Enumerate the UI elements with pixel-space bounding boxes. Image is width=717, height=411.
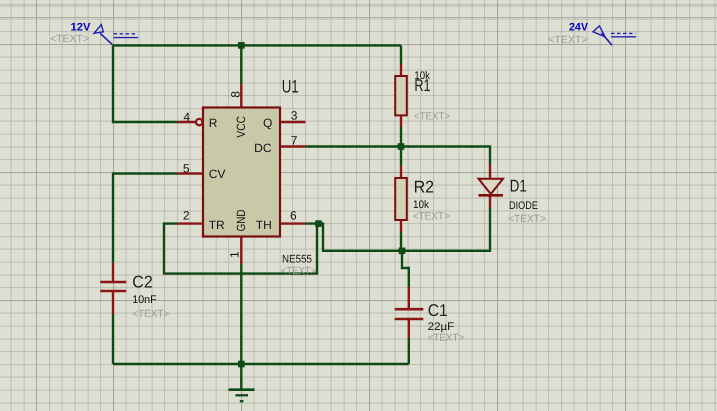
svg-text:Q: Q — [263, 116, 272, 130]
svg-text:10nF: 10nF — [132, 294, 157, 306]
pin 4 stub — [178, 121, 196, 123]
pin 8 stub — [240, 84, 242, 108]
resistor R1 — [395, 64, 407, 127]
wire C1 bottom — [408, 338, 410, 364]
svg-text:GND: GND — [234, 209, 248, 231]
wire bottom rail — [113, 363, 409, 365]
power terminal 24V — [593, 26, 636, 45]
wire R1 top — [400, 45, 402, 64]
wire top rail 12V — [113, 44, 401, 46]
pin 4 bubble — [196, 119, 202, 125]
pin 1 stub — [240, 237, 242, 264]
svg-text:NE555: NE555 — [282, 253, 312, 265]
capacitor C1 — [395, 287, 424, 338]
ground — [229, 364, 255, 401]
svg-text:R2: R2 — [414, 177, 435, 196]
svg-text:7: 7 — [291, 133, 298, 147]
pin 2 stub — [178, 222, 204, 224]
svg-text:R: R — [209, 116, 218, 130]
power terminal 12V — [94, 25, 138, 45]
wire R2 top — [400, 147, 402, 166]
wire TR-TH loop — [164, 224, 317, 274]
resistor R2 — [395, 166, 407, 232]
capacitor C2 — [100, 263, 126, 314]
wire pin1 to ground rail — [240, 264, 242, 365]
svg-text:1: 1 — [227, 251, 241, 258]
wire C1 top jog — [402, 251, 409, 287]
svg-text:C1: C1 — [428, 301, 448, 320]
svg-text:<TEXT>: <TEXT> — [50, 33, 89, 45]
svg-text:8: 8 — [229, 91, 243, 98]
node junction lower net — [399, 248, 406, 255]
svg-text:10k: 10k — [413, 199, 429, 211]
pin 6 stub — [280, 222, 305, 224]
svg-text:DIODE: DIODE — [509, 200, 538, 212]
svg-text:VCC: VCC — [234, 116, 248, 138]
svg-text:6: 6 — [290, 209, 297, 223]
svg-text:24V: 24V — [569, 22, 589, 34]
wire pin8 drop — [240, 45, 242, 84]
svg-text:4: 4 — [183, 110, 190, 124]
node junction ground rail — [238, 361, 245, 368]
wire pin5 to C2 — [113, 174, 178, 263]
svg-text:5: 5 — [183, 162, 190, 176]
svg-text:12V: 12V — [71, 22, 92, 34]
svg-text:<TEXT>: <TEXT> — [413, 211, 450, 223]
node junction pin6 — [315, 220, 322, 227]
svg-text:3: 3 — [291, 109, 298, 123]
wire left rail to pin4 — [113, 45, 178, 122]
svg-text:TH: TH — [256, 218, 272, 232]
svg-text:C2: C2 — [132, 273, 152, 292]
node junction DC R1 R2 — [398, 143, 405, 150]
diode D1 — [479, 164, 504, 208]
svg-text:<TEXT>: <TEXT> — [548, 34, 587, 46]
pin 3 stub — [280, 121, 305, 123]
pin 7 stub — [280, 145, 305, 147]
pin 5 stub — [178, 172, 204, 174]
svg-text:CV: CV — [209, 167, 226, 181]
svg-text:U1: U1 — [282, 77, 299, 97]
wire R2 bottom — [400, 232, 402, 251]
svg-text:<TEXT>: <TEXT> — [508, 213, 546, 225]
wire pin6 to lower net — [305, 208, 490, 251]
svg-text:<TEXT>: <TEXT> — [414, 111, 450, 123]
node junction top rail — [238, 42, 245, 49]
svg-text:<TEXT>: <TEXT> — [132, 308, 169, 320]
op-amp U1 body NE555 — [203, 108, 280, 237]
svg-text:<TEXT>: <TEXT> — [428, 332, 465, 344]
svg-text:TR: TR — [209, 218, 225, 232]
wire R1 bottom — [400, 127, 402, 147]
svg-text:2: 2 — [183, 208, 190, 222]
wire DC pin7 to D1 — [305, 147, 490, 165]
svg-text:D1: D1 — [510, 176, 527, 195]
svg-text:R1: R1 — [414, 76, 430, 95]
svg-text:DC: DC — [254, 141, 272, 155]
svg-text:<TEXT>: <TEXT> — [281, 265, 316, 277]
wire C2 bottom — [112, 314, 114, 364]
